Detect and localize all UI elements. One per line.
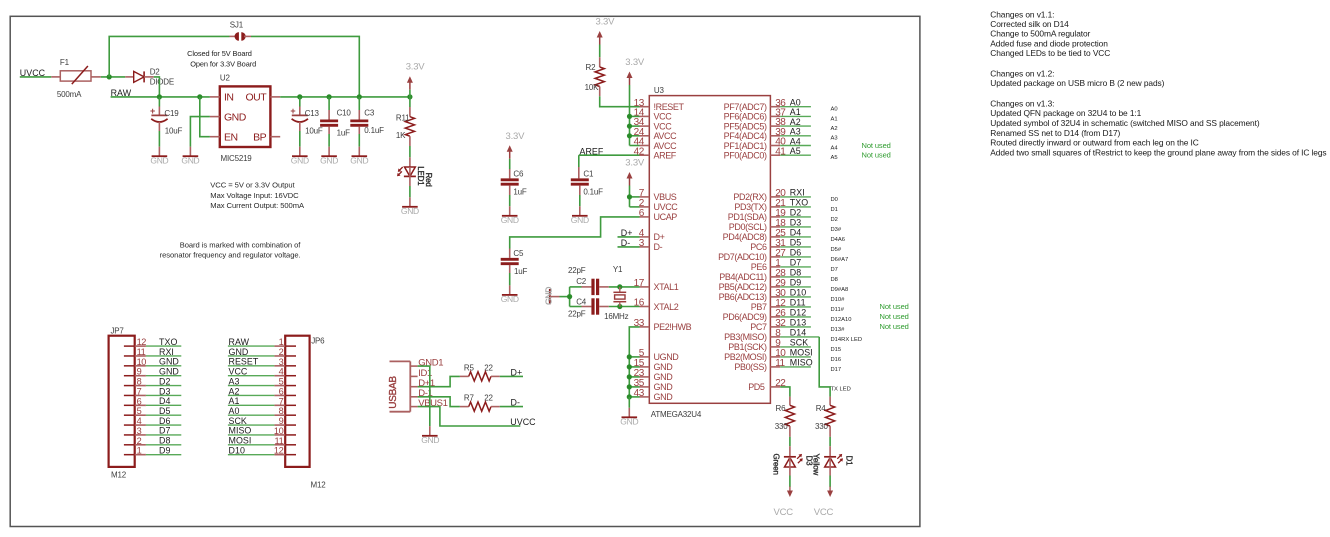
wire F1 to junction and diode D2	[91, 76, 125, 78]
svg-text:C2: C2	[576, 277, 587, 286]
svg-text:6: 6	[137, 396, 142, 406]
regulator U2 MIC5219	[210, 74, 280, 163]
svg-text:BP: BP	[253, 131, 267, 143]
svg-text:GND: GND	[350, 155, 368, 165]
net label D5 wire at JP7	[146, 406, 181, 416]
svg-text:D11: D11	[790, 298, 806, 308]
resistor R4 330	[815, 397, 835, 457]
svg-text:1K: 1K	[396, 131, 406, 140]
svg-text:R7: R7	[464, 394, 475, 403]
svg-text:500mA: 500mA	[57, 90, 82, 99]
svg-text:PD6(ADC9): PD6(ADC9)	[723, 312, 767, 322]
svg-text:D-: D-	[511, 398, 520, 408]
wire junction up to SJ1 rail	[109, 36, 229, 77]
wire PE2!HWB to ground net	[629, 327, 639, 357]
svg-text:U3: U3	[654, 86, 665, 95]
svg-text:5: 5	[279, 377, 284, 387]
pin 36 PF7(ADC7) of U3	[724, 98, 787, 112]
text changelog	[990, 9, 1326, 157]
crystal Y1 16MHz	[604, 265, 629, 321]
svg-text:8: 8	[137, 377, 142, 387]
svg-text:PB3(MISO): PB3(MISO)	[724, 332, 767, 342]
svg-text:D7: D7	[159, 426, 170, 436]
svg-text:C1: C1	[583, 169, 594, 178]
pin 8 A0 of JP6	[274, 406, 296, 416]
net label A2 wire at JP6	[228, 386, 275, 396]
svg-text:DIODE: DIODE	[150, 78, 174, 87]
ground below C10	[320, 147, 338, 166]
svg-text:D1: D1	[844, 456, 853, 467]
text Not used	[862, 141, 891, 150]
pin 10 GND of JP7	[124, 357, 146, 367]
net label GND wire at JP7	[146, 357, 181, 367]
wire 3.3V output rail	[280, 96, 410, 98]
supply VCC below D3	[774, 487, 794, 518]
svg-text:GND: GND	[291, 155, 309, 165]
text board marking note	[160, 240, 302, 259]
svg-text:D8: D8	[790, 268, 801, 278]
LED LED1 Red	[397, 166, 433, 197]
svg-text:Max Voltage Input: 16VDC: Max Voltage Input: 16VDC	[210, 191, 299, 200]
svg-text:+: +	[150, 106, 155, 116]
svg-text:D13: D13	[790, 318, 806, 328]
svg-text:+: +	[290, 106, 295, 116]
net label TXO wire at JP7	[146, 337, 181, 347]
svg-text:1uF: 1uF	[513, 188, 526, 197]
wire XTAL2 net	[609, 306, 640, 308]
net label A1 wire	[780, 107, 837, 122]
svg-text:Change to 500mA regulator: Change to 500mA regulator	[990, 29, 1090, 39]
svg-text:PD5: PD5	[748, 382, 765, 392]
net label D10 wire	[780, 288, 845, 303]
pin 9 PB1(SCK) of U3	[728, 338, 781, 352]
svg-text:6: 6	[279, 386, 284, 396]
ground below C1	[571, 206, 589, 225]
net label VCC wire at JP6	[228, 367, 275, 377]
ground at crystal (rotated)	[543, 287, 569, 305]
svg-text:A5: A5	[831, 155, 838, 161]
svg-text:Not used: Not used	[862, 141, 891, 150]
wire USB GND1 to ground	[418, 366, 430, 426]
net label D- wire at R7	[500, 398, 523, 408]
svg-text:Board is marked with combinati: Board is marked with combination of	[180, 240, 302, 249]
wire U2 GND pin to ground	[190, 117, 210, 147]
svg-text:D4: D4	[159, 396, 170, 406]
svg-text:3: 3	[137, 426, 142, 436]
svg-text:17: 17	[634, 278, 645, 289]
svg-text:D6#A7: D6#A7	[831, 257, 849, 263]
capacitor C1 0.1uF	[571, 169, 603, 206]
pin 27 PD7(ADC10) of U3	[718, 248, 786, 262]
svg-text:Green: Green	[771, 454, 780, 475]
svg-text:F1: F1	[60, 58, 70, 67]
ground below C5	[501, 285, 519, 304]
pin 5 D5 of JP7	[124, 406, 146, 416]
text Not used	[880, 302, 909, 311]
svg-text:9: 9	[137, 367, 142, 377]
svg-text:JP7: JP7	[111, 326, 125, 335]
net label MISO wire	[780, 358, 841, 373]
capacitor C6 1uF	[501, 169, 527, 206]
node junction VCC pin 14	[627, 114, 632, 119]
pin 21 PD3(TX) of U3	[734, 198, 786, 212]
svg-text:resonator frequency and regula: resonator frequency and regulator voltag…	[160, 250, 301, 259]
svg-text:GND: GND	[501, 294, 519, 304]
svg-text:PC6: PC6	[750, 242, 767, 252]
supply 3.3V above VBUS pin	[625, 158, 645, 207]
wire SJ1 to 3.3V rail	[251, 36, 359, 97]
svg-text:A1: A1	[831, 116, 838, 122]
pin 1 PE6 of U3	[751, 258, 781, 272]
svg-text:PB7: PB7	[751, 302, 767, 312]
wire D14 to TX LED	[819, 337, 851, 397]
svg-text:2: 2	[137, 436, 142, 446]
net label D8 wire	[780, 268, 838, 283]
net label SCK wire at JP6	[228, 416, 275, 426]
svg-text:D5: D5	[159, 406, 170, 416]
net label D4 wire	[780, 228, 845, 243]
net label A3 wire	[780, 127, 837, 142]
fuse F1 500mA	[57, 58, 91, 99]
net label MOSI wire at JP6	[228, 436, 275, 446]
svg-text:PF4(ADC4): PF4(ADC4)	[724, 131, 767, 141]
svg-text:R6: R6	[776, 404, 787, 413]
svg-text:Changed LEDs to be tied to VCC: Changed LEDs to be tied to VCC	[990, 48, 1110, 58]
pin 1 D9 of JP7	[124, 446, 146, 456]
net label D14 wire	[780, 328, 862, 343]
pin 30 PB6(ADC13) of U3	[719, 288, 787, 302]
svg-text:PD1(SDA): PD1(SDA)	[728, 212, 767, 222]
supply 3.3V above C6	[506, 131, 526, 179]
pin 5 A3 of JP6	[274, 377, 296, 387]
svg-text:C13: C13	[305, 109, 320, 118]
svg-text:GND: GND	[159, 357, 179, 367]
svg-text:A0: A0	[831, 107, 838, 113]
net label RESET wire at JP6	[228, 357, 275, 367]
svg-text:A0: A0	[229, 406, 240, 416]
pin 12 D10 of JP6	[274, 446, 296, 456]
svg-text:A0: A0	[790, 98, 801, 108]
svg-text:PB5(ADC12): PB5(ADC12)	[719, 282, 767, 292]
svg-text:4: 4	[279, 367, 284, 377]
svg-text:D-: D-	[654, 242, 663, 252]
pin 23 GND of U3	[634, 368, 674, 382]
net label D7 wire	[780, 258, 838, 273]
svg-text:D5#: D5#	[831, 247, 842, 253]
svg-text:D8: D8	[831, 277, 838, 283]
svg-text:16: 16	[634, 298, 645, 309]
ground below C19	[150, 147, 168, 166]
svg-text:M12: M12	[311, 480, 327, 489]
net label D8 wire at JP7	[146, 436, 181, 446]
node junction GND23	[627, 374, 632, 379]
node junction GND15	[627, 364, 632, 369]
svg-text:A4: A4	[831, 145, 839, 151]
ground below C13	[291, 147, 309, 166]
pin 15 GND of U3	[634, 358, 674, 372]
pin 10 PB2(MOSI) of U3	[724, 348, 786, 362]
svg-text:D9: D9	[159, 445, 170, 455]
svg-text:U2: U2	[220, 74, 231, 83]
svg-text:D13#: D13#	[831, 327, 846, 333]
pin 11 PB0(SS) of U3	[734, 358, 785, 372]
svg-text:VCC: VCC	[814, 507, 834, 518]
svg-text:C3: C3	[364, 109, 375, 118]
svg-text:3.3V: 3.3V	[596, 17, 616, 28]
svg-text:TXO: TXO	[790, 198, 808, 208]
diode D2 DIODE	[125, 68, 174, 87]
svg-text:3.3V: 3.3V	[625, 57, 645, 68]
pin 4 VCC of JP6	[274, 367, 296, 377]
node junction RAW/C19	[157, 94, 162, 99]
svg-text:PD4(ADC8): PD4(ADC8)	[723, 232, 767, 242]
svg-text:UVCC: UVCC	[654, 202, 679, 212]
node junction GND35	[627, 384, 632, 389]
svg-text:MISO: MISO	[229, 426, 252, 436]
pin 18 PD0(SCL) of U3	[729, 218, 786, 232]
solder jumper SJ1	[230, 20, 252, 40]
text Not used	[862, 151, 891, 160]
pin 38 PF5(ADC5) of U3	[724, 117, 787, 131]
pin 5 UGND of U3	[639, 348, 680, 362]
svg-text:Not used: Not used	[880, 302, 909, 311]
svg-text:VCC: VCC	[229, 367, 248, 377]
net label D6 wire	[780, 248, 848, 263]
pin 41 PF0(ADC0) of U3	[724, 146, 787, 160]
svg-text:Max Current Output: 500mA: Max Current Output: 500mA	[210, 201, 305, 210]
svg-text:PD0(SCL): PD0(SCL)	[729, 222, 767, 232]
svg-text:GND: GND	[421, 435, 439, 445]
svg-text:PD7(ADC10): PD7(ADC10)	[718, 252, 767, 262]
svg-text:PE2!HWB: PE2!HWB	[654, 322, 692, 332]
svg-text:VCC: VCC	[774, 507, 794, 518]
supply 3.3V above R11	[406, 62, 426, 97]
wire R2 to U3 !RESET pin 13	[600, 96, 640, 107]
svg-text:D8: D8	[159, 436, 170, 446]
net label D9 wire	[780, 278, 848, 293]
pin 2 UVCC of U3	[639, 198, 679, 212]
svg-text:VCC = 5V or 3.3V Output: VCC = 5V or 3.3V Output	[210, 181, 295, 190]
svg-text:A2: A2	[831, 126, 838, 132]
svg-text:D3: D3	[790, 218, 801, 228]
node junction C2/C4 ground	[567, 287, 572, 307]
ground below C6	[501, 206, 519, 225]
pin 31 PC6 of U3	[750, 238, 786, 252]
svg-text:7: 7	[137, 386, 142, 396]
pin 11 MOSI of JP6	[274, 436, 296, 446]
pin 13 !RESET of U3	[634, 98, 685, 112]
svg-text:GND: GND	[320, 155, 338, 165]
svg-text:PB1(SCK): PB1(SCK)	[728, 342, 767, 352]
svg-text:Changes on v1.3:: Changes on v1.3:	[990, 99, 1054, 109]
wire USB VBUS1 to UVCC	[418, 407, 521, 426]
pin 1 RAW of JP6	[274, 337, 296, 347]
svg-text:10: 10	[137, 357, 147, 367]
pin 12 PB7 of U3	[751, 298, 786, 312]
resistor R2 10K	[585, 45, 605, 97]
pin 33 PE2!HWB of U3	[634, 318, 692, 332]
svg-text:3: 3	[279, 357, 284, 367]
svg-text:10K: 10K	[585, 83, 599, 92]
svg-text:D11#: D11#	[831, 307, 845, 313]
net label RAW and wire to U2 IN	[111, 88, 210, 98]
svg-text:Added fuse and diode protectio: Added fuse and diode protection	[990, 38, 1108, 48]
svg-text:PF0(ADC0): PF0(ADC0)	[724, 151, 767, 161]
svg-text:Closed for 5V Board: Closed for 5V Board	[187, 49, 252, 58]
wire USB D-1 to R7	[418, 397, 460, 407]
pin 4 D+ of U3	[639, 228, 665, 242]
LED D1 Yellow	[812, 454, 854, 487]
pin 22 PD5 of U3	[748, 378, 786, 392]
pin 2 D8 of JP7	[124, 436, 146, 446]
svg-text:D0: D0	[831, 197, 838, 203]
pin GND1 of USBAB	[410, 358, 443, 369]
svg-text:C10: C10	[337, 109, 352, 118]
capacitor C2 22pF	[568, 266, 609, 295]
svg-text:RXI: RXI	[790, 188, 805, 198]
svg-text:GND: GND	[181, 155, 199, 165]
svg-text:XTAL1: XTAL1	[654, 282, 679, 292]
svg-text:D14: D14	[790, 328, 806, 338]
svg-text:11: 11	[275, 436, 284, 446]
wire XTAL1 net	[609, 286, 640, 288]
svg-text:ATMEGA32U4: ATMEGA32U4	[651, 410, 702, 419]
net label UVCC (power input)	[20, 68, 46, 78]
svg-text:330: 330	[775, 422, 788, 431]
pin 6 UCAP of U3	[639, 208, 678, 222]
svg-text:D10: D10	[229, 445, 245, 455]
net label D11 wire	[780, 298, 845, 313]
text Not used	[880, 312, 909, 321]
capacitor C5 1uF	[501, 249, 528, 285]
svg-text:D+: D+	[511, 368, 523, 378]
svg-text:UVCC: UVCC	[510, 417, 536, 427]
pin 3 RESET of JP6	[274, 357, 296, 367]
net label GND wire at JP6	[228, 347, 275, 357]
text Not used	[880, 322, 909, 331]
ground below U2	[181, 147, 199, 166]
node junction rail/C13	[297, 94, 302, 99]
svg-text:RESET: RESET	[229, 357, 259, 367]
svg-text:D12A10: D12A10	[831, 317, 852, 323]
svg-text:D2: D2	[150, 68, 161, 77]
svg-text:4: 4	[137, 416, 142, 426]
svg-text:AREF: AREF	[654, 151, 677, 161]
svg-text:SCK: SCK	[790, 338, 808, 348]
pin VBUS1 of USBAB	[410, 398, 447, 409]
net label D5 wire	[780, 238, 842, 253]
net label RXI wire at JP7	[146, 347, 181, 357]
text regulator notes	[210, 181, 305, 211]
svg-text:D9: D9	[790, 278, 801, 288]
svg-text:22pF: 22pF	[568, 309, 586, 318]
svg-text:2: 2	[279, 347, 284, 357]
net label A0 wire	[780, 98, 837, 113]
ground below LED1	[401, 197, 419, 216]
net label A1 wire at JP6	[228, 396, 275, 406]
net label A4 wire	[780, 136, 838, 151]
node junction VCC pin 34	[627, 124, 632, 129]
pin 35 GND of U3	[634, 378, 674, 392]
pin 32 PC7 of U3	[750, 318, 786, 332]
net label RAW wire at JP6	[228, 337, 275, 347]
pin D+1 of USBAB	[410, 378, 435, 389]
svg-text:PB0(SS): PB0(SS)	[734, 362, 767, 372]
svg-text:D2: D2	[790, 208, 801, 218]
svg-text:GND: GND	[150, 155, 168, 165]
svg-text:Added two small squares of tRe: Added two small squares of tRestrict to …	[990, 147, 1326, 157]
svg-text:OUT: OUT	[246, 92, 268, 104]
svg-text:Not used: Not used	[862, 151, 891, 160]
svg-text:Updated symbol of 32U4 in sche: Updated symbol of 32U4 in schematic (swi…	[990, 118, 1260, 128]
svg-text:PF7(ADC7): PF7(ADC7)	[724, 102, 767, 112]
svg-text:Not used: Not used	[880, 312, 909, 321]
svg-text:1: 1	[279, 337, 284, 347]
net label UVCC at USB	[510, 417, 536, 427]
pin 7 VBUS of U3	[639, 188, 677, 202]
pin 7 A1 of JP6	[274, 396, 296, 406]
svg-text:R2: R2	[586, 63, 597, 72]
svg-text:XTAL2: XTAL2	[654, 302, 679, 312]
svg-text:PF6(ADC6): PF6(ADC6)	[724, 112, 767, 122]
svg-text:VCC: VCC	[654, 112, 673, 122]
svg-text:C19: C19	[164, 109, 179, 118]
pin 6 D4 of JP7	[124, 396, 146, 406]
pin 42 AREF of U3	[634, 146, 677, 160]
svg-text:PE6: PE6	[751, 262, 767, 272]
pin 26 PD6(ADC9) of U3	[723, 308, 787, 322]
net label D3 wire	[780, 218, 842, 233]
svg-text:Yellow: Yellow	[812, 454, 821, 476]
svg-text:D5: D5	[790, 238, 801, 248]
ground below USB	[421, 426, 439, 445]
ground below C3	[350, 147, 368, 166]
pin 20 PD2(RX) of U3	[733, 188, 786, 202]
pin 28 PB4(ADC11) of U3	[719, 268, 786, 282]
svg-text:PB2(MOSI): PB2(MOSI)	[724, 352, 767, 362]
svg-text:D12: D12	[790, 308, 806, 318]
svg-text:MOSI: MOSI	[229, 436, 252, 446]
supply 3.3V above R2	[596, 17, 616, 45]
svg-text:JP6: JP6	[311, 336, 325, 345]
svg-text:A3: A3	[790, 127, 801, 137]
svg-text:PB4(ADC11): PB4(ADC11)	[719, 272, 767, 282]
svg-text:A5: A5	[790, 146, 801, 156]
pin 39 PF4(ADC4) of U3	[724, 127, 787, 141]
net label D2 wire	[780, 208, 838, 223]
svg-text:D2: D2	[831, 217, 838, 223]
net label D9 wire at JP7	[146, 445, 181, 455]
svg-text:UGND: UGND	[654, 352, 680, 362]
resistor R7 22	[460, 394, 500, 412]
pin 7 D3 of JP7	[124, 386, 146, 396]
svg-text:C5: C5	[513, 249, 524, 258]
svg-text:Y1: Y1	[613, 265, 623, 274]
svg-text:RXI: RXI	[159, 347, 174, 357]
connector JP7 M12	[109, 326, 135, 479]
node junction UGND	[627, 354, 632, 359]
svg-text:R4: R4	[816, 404, 827, 413]
pin 19 PD1(SDA) of U3	[728, 208, 786, 222]
svg-text:D2: D2	[159, 376, 170, 386]
pin 12 TXO of JP7	[124, 337, 146, 347]
pin 40 PF1(ADC1) of U3	[724, 137, 787, 151]
svg-text:SJ1: SJ1	[230, 20, 244, 29]
net label MOSI wire	[780, 348, 841, 363]
svg-text:C4: C4	[576, 298, 587, 307]
svg-text:D10: D10	[790, 288, 806, 298]
svg-text:D15: D15	[831, 347, 842, 353]
